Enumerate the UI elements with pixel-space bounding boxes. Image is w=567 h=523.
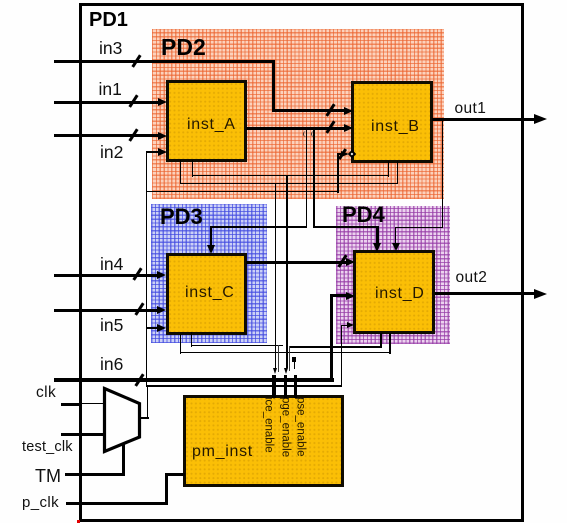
- arrow in4 into inst_C: [157, 271, 166, 279]
- label in5: [100, 317, 123, 335]
- label PD1: [89, 10, 128, 30]
- wire in3 vertical drop: [272, 60, 275, 112]
- inst_D top1 feed vertical: [376, 226, 378, 243]
- bus slash on in6: [134, 373, 144, 386]
- wire out2: [435, 292, 536, 295]
- wire inst_A to inst_B: [246, 127, 344, 130]
- wire clock stub into inst_C lower pin: [146, 327, 158, 329]
- TM riser into mux: [122, 444, 125, 476]
- inst_C bottom pin wire 2: [180, 334, 181, 354]
- label ice_enable (rotated): [265, 397, 273, 453]
- label p_clk: [22, 495, 59, 510]
- inst_A bottom pin wire 2: [192, 160, 193, 177]
- p_clk riser: [165, 473, 168, 505]
- arrow into inst_A clock pin: [158, 148, 167, 156]
- label PD2: [161, 36, 206, 59]
- arrow in2 into inst_A: [158, 132, 167, 140]
- arrow into inst_C clock pin: [157, 324, 166, 332]
- p_clk wire: [66, 502, 168, 505]
- inst_C top feed vertical: [210, 226, 212, 246]
- arrow in1 into inst_A: [158, 98, 167, 106]
- vertical from B-input bus to PD3: [306, 128, 308, 228]
- label in6: [100, 356, 123, 374]
- label out2: [456, 270, 488, 286]
- inst_C bottom pin wire 1: [191, 332, 192, 347]
- label in1: [99, 81, 122, 99]
- power domain PD1 boundary box: [79, 3, 525, 522]
- label in4: [100, 256, 123, 274]
- drop from A-net to pge arrow: [286, 176, 287, 368]
- wire in3 to inst_B: [272, 109, 345, 112]
- test_clk wire: [61, 433, 104, 436]
- wire in3 horizontal: [54, 60, 275, 63]
- wire in6: [54, 378, 334, 381]
- label out1: [455, 101, 487, 117]
- arrow down onto ice stub: [273, 368, 277, 374]
- instance pm_inst (power manager): [183, 395, 344, 487]
- label TM: [35, 467, 61, 485]
- bus slash near inst_B pin2: [325, 120, 335, 133]
- pse drop below dot: [294, 362, 295, 369]
- pse square dot: [292, 357, 296, 362]
- clock feedback line to diamond: [146, 191, 339, 192]
- wire to diamond stub: [337, 153, 343, 155]
- red tick at bottom-left of PD1: [77, 520, 80, 523]
- clock rail vertical: [146, 151, 147, 387]
- mux output wire horizontal: [147, 385, 342, 386]
- net line A2-B2 under blocks: [180, 183, 398, 184]
- bus slash on diamond wire: [338, 148, 347, 159]
- power domain PD2 hatched region: [152, 29, 444, 199]
- clk wire thick: [61, 403, 81, 406]
- C-D bottom net line right: [289, 346, 382, 347]
- wire to diamond vertical: [337, 153, 339, 193]
- bus slash on in1: [128, 94, 138, 107]
- bus slash on in5: [134, 302, 144, 315]
- power domain PD4 hatched region: [336, 206, 451, 344]
- arrow into inst_B pin2: [344, 124, 353, 132]
- arrow in5 into inst_C: [157, 306, 166, 314]
- bus slash on in4: [132, 267, 142, 280]
- label test_clk: [22, 440, 73, 455]
- p_clk wire into pm_inst: [165, 473, 185, 476]
- arrow out1: [534, 114, 547, 124]
- inst_D bottom pin wire 2: [389, 333, 390, 354]
- in6 riser to inst_D: [330, 294, 333, 381]
- vertical from B-input bus to PD4: [313, 128, 315, 228]
- arrow down into inst_D pin t1: [373, 243, 381, 252]
- bus slash on in3: [131, 54, 141, 67]
- wire in5: [54, 309, 158, 312]
- label pse_enable (rotated): [297, 397, 305, 456]
- wire in1: [54, 101, 159, 104]
- instance inst_D: [353, 250, 435, 334]
- arrow down into inst_D pin t2: [392, 243, 400, 251]
- wire clock stub into inst_A lower pin: [146, 151, 159, 153]
- instance inst_B: [351, 81, 433, 163]
- pm stub pge_enable: [284, 375, 287, 398]
- label PD3: [160, 206, 203, 228]
- label pge_enable (rotated): [281, 397, 289, 457]
- inst_D top2 feed vertical: [395, 227, 397, 244]
- bus slash near inst_B pin1: [325, 103, 335, 116]
- inst_B bottom pin wire 2: [397, 161, 398, 184]
- bus segment to inst_D top1: [314, 226, 378, 228]
- hop arc on vertical 306: [303, 131, 307, 137]
- clock riser to inst_D: [341, 325, 342, 387]
- bus slash on in2: [128, 128, 138, 141]
- arrow down into inst_C: [207, 245, 215, 254]
- instance inst_A: [166, 80, 248, 163]
- TM wire: [65, 473, 125, 476]
- drop from C-D net left: [278, 345, 279, 372]
- drop from A-net to ice arrow: [275, 183, 276, 368]
- wire inst_C to inst_D: [246, 261, 347, 264]
- in6 stub into inst_D: [330, 294, 347, 297]
- arrow into inst_B pin1: [344, 107, 353, 115]
- net line A1-B1 under blocks: [192, 175, 390, 176]
- wire out1: [432, 118, 536, 121]
- arrow into inst_D left pin1: [346, 258, 355, 266]
- bus slash on C-D wire: [337, 254, 347, 267]
- C-D bottom net line 2: [180, 352, 391, 353]
- wire in4: [54, 274, 158, 277]
- arrow down onto pge stub: [284, 368, 288, 374]
- arrow out2: [534, 289, 547, 299]
- label in3: [99, 40, 122, 58]
- arrow into inst_D left pin2: [346, 292, 355, 300]
- arrow into diamond: [341, 151, 349, 157]
- instance inst_C: [166, 253, 247, 335]
- out1 feedback vertical: [442, 120, 443, 228]
- pm stub pse_enable: [294, 375, 297, 398]
- label clk: [36, 385, 56, 401]
- inst_D bottom pin wire 1: [380, 333, 381, 347]
- wire in2: [54, 134, 159, 137]
- out1 feedback horizontal: [395, 227, 444, 228]
- inst_A bottom pin wire 1: [180, 160, 181, 184]
- clock stub into inst_D: [341, 325, 348, 326]
- C-D bottom net line left: [191, 345, 283, 346]
- hop arc on vertical 314: [311, 131, 315, 137]
- pm stub ice_enable: [272, 375, 275, 398]
- bus segment to inst_C top: [211, 226, 307, 228]
- mux output stub: [139, 417, 149, 418]
- arrow into inst_D clock pin: [347, 322, 354, 328]
- label PD4: [342, 204, 385, 226]
- clk wire thin into mux: [81, 403, 104, 404]
- label in2: [100, 144, 123, 162]
- drop from C-D net right: [289, 346, 290, 371]
- mux output riser: [147, 385, 148, 419]
- inst_B bottom pin wire 1: [388, 161, 389, 177]
- diamond marker on inst_B: [347, 150, 355, 158]
- power domain PD3 hatched region: [151, 204, 267, 343]
- clock mux trapezoid: [98, 382, 146, 458]
